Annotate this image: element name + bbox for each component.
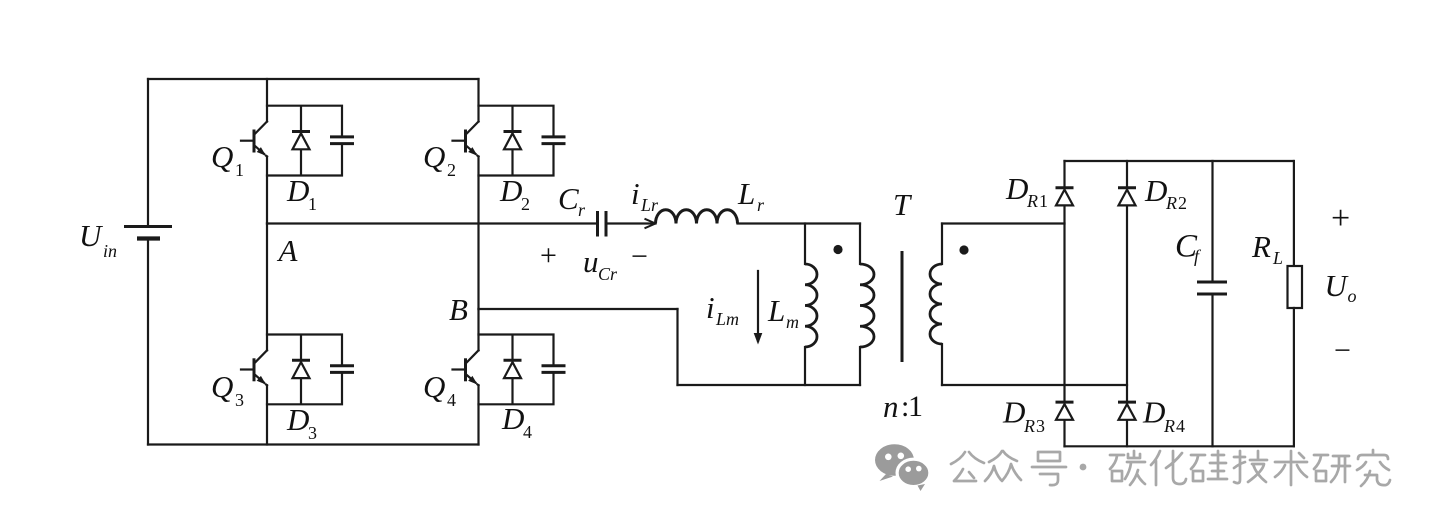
watermark char hua <box>1151 451 1186 485</box>
watermark char hao <box>1032 452 1066 485</box>
label D2 <box>499 173 530 214</box>
svg-text:R: R <box>1026 191 1038 211</box>
label Q3 <box>211 369 244 410</box>
svg-text:+: + <box>1331 200 1350 237</box>
wire rectifier top rail <box>1065 160 1294 162</box>
watermark char shu <box>1275 451 1307 485</box>
wire Q3 leg upper (node A down) <box>266 224 268 351</box>
svg-text:D: D <box>1142 395 1165 430</box>
svg-text:R: R <box>1165 193 1177 213</box>
wechat icon small bubble <box>897 459 930 491</box>
label DR4 <box>1142 395 1185 437</box>
wire primary-side bottom <box>678 384 861 386</box>
svg-text:in: in <box>103 241 117 261</box>
label Lr <box>737 176 765 215</box>
diode DR3 <box>1056 402 1074 420</box>
diode DR2 <box>1118 188 1136 206</box>
current arrow iLr <box>645 219 656 229</box>
label Q4 <box>423 369 456 410</box>
capacitor Cr <box>598 211 607 237</box>
snubber capacitor of Q2 <box>542 137 566 144</box>
svg-text:r: r <box>757 195 765 215</box>
wechat icon big bubble <box>875 444 914 481</box>
load resistor RL <box>1288 161 1303 446</box>
svg-text:D: D <box>1005 171 1028 206</box>
svg-text:Q: Q <box>211 139 233 174</box>
svg-text:L: L <box>737 176 755 211</box>
current arrow iLm <box>754 271 763 345</box>
svg-text:T: T <box>893 187 913 222</box>
svg-text:R: R <box>1023 416 1035 436</box>
svg-text:L: L <box>767 293 785 328</box>
snubber capacitor of Q1 <box>330 137 354 144</box>
label iLr <box>631 176 659 215</box>
watermark char jiu <box>1357 450 1390 486</box>
transformer T primary winding <box>860 224 874 386</box>
wire bottom rail <box>148 443 479 445</box>
wire DR1/DR3 branch <box>1063 161 1065 446</box>
label iLm <box>706 290 739 329</box>
svg-text:3: 3 <box>235 390 244 410</box>
svg-text:i: i <box>631 176 640 211</box>
svg-text:1: 1 <box>908 390 923 423</box>
label Q2 <box>423 139 456 180</box>
svg-text:4: 4 <box>523 422 532 442</box>
svg-text:A: A <box>277 233 299 268</box>
svg-text:U: U <box>1325 268 1350 303</box>
wire secondary top to rectifier <box>942 222 1065 224</box>
diode D3 <box>292 360 310 378</box>
svg-text:L: L <box>1272 248 1283 268</box>
label Uo <box>1325 268 1357 306</box>
watermark char gui <box>1191 451 1227 481</box>
svg-text:r: r <box>578 200 586 220</box>
wire Q2 leg upper <box>477 79 479 122</box>
inductor Lr <box>656 210 738 224</box>
label uCr <box>583 244 618 284</box>
label D3 <box>286 402 317 443</box>
svg-text:i: i <box>706 290 715 325</box>
label DR3 <box>1002 395 1045 437</box>
transformer core <box>901 251 904 362</box>
svg-text:o: o <box>1348 286 1357 306</box>
label U_in <box>79 218 117 261</box>
inductor Lm (magnetizing) <box>805 224 817 386</box>
transistor Q4 <box>453 350 479 385</box>
wire Q1 emitter to node A <box>266 157 268 224</box>
label Lm <box>767 293 799 332</box>
svg-text:1: 1 <box>235 160 244 180</box>
label RL <box>1251 229 1283 268</box>
wire Q4 snubber bracket <box>479 335 554 405</box>
transformer secondary winding <box>930 224 942 386</box>
watermark char gong <box>951 452 984 481</box>
svg-text:3: 3 <box>1036 416 1045 436</box>
svg-text:D: D <box>1144 173 1167 208</box>
svg-text:U: U <box>79 218 104 253</box>
snubber capacitor of Q4 <box>542 366 566 373</box>
svg-text:2: 2 <box>1178 193 1187 213</box>
diode DR4 <box>1118 402 1136 420</box>
wire Q2 emitter to node B <box>477 157 479 310</box>
wire secondary bottom to rectifier <box>942 384 1127 386</box>
label Cr <box>558 181 586 220</box>
transistor Q1 <box>241 122 267 157</box>
watermark char tan <box>1110 451 1145 485</box>
svg-text:D: D <box>286 402 309 437</box>
svg-text:R: R <box>1251 229 1271 264</box>
svg-text:2: 2 <box>447 160 456 180</box>
svg-text:Lr: Lr <box>640 195 659 215</box>
transistor Q3 <box>241 350 267 385</box>
label DR2 <box>1144 173 1187 213</box>
snubber capacitor of Q3 <box>330 366 354 373</box>
wire Q3 snubber bracket <box>267 335 342 405</box>
svg-text:−: − <box>631 240 648 273</box>
svg-text:3: 3 <box>308 423 317 443</box>
diode D4 <box>504 360 522 378</box>
wire rectifier bottom rail <box>1065 445 1294 447</box>
svg-text:Q: Q <box>211 369 233 404</box>
wire B corner down <box>676 309 678 385</box>
label D1 <box>286 173 317 214</box>
wire node A to Cr <box>267 222 598 224</box>
svg-text:+: + <box>540 239 557 272</box>
svg-text:B: B <box>449 292 468 327</box>
svg-text:4: 4 <box>447 390 456 410</box>
svg-text:Cr: Cr <box>598 264 618 284</box>
wire DR2/DR4 branch <box>1126 161 1128 446</box>
diode D2 <box>504 132 522 150</box>
primary polarity dot <box>833 245 842 254</box>
svg-text:u: u <box>583 244 599 279</box>
wire top rail <box>148 78 479 80</box>
svg-text:D: D <box>499 173 522 208</box>
svg-text:D: D <box>286 173 309 208</box>
wire node B run <box>479 308 678 310</box>
svg-text:Q: Q <box>423 369 445 404</box>
label D4 <box>501 401 532 442</box>
svg-text:4: 4 <box>1176 416 1185 436</box>
svg-text:D: D <box>501 401 524 436</box>
diode DR1 <box>1056 188 1074 206</box>
svg-text:−: − <box>1334 334 1351 367</box>
svg-text:1: 1 <box>1039 191 1048 211</box>
wire Lr to transformer top <box>738 222 861 224</box>
label n:1 <box>883 389 923 424</box>
watermark char zhong <box>985 451 1021 481</box>
wire Q4 leg upper (node B down) <box>477 309 479 350</box>
wire Q1 leg upper <box>266 79 268 122</box>
label Q1 <box>211 139 244 180</box>
diode D1 <box>292 132 310 150</box>
svg-text:R: R <box>1163 416 1175 436</box>
wire Q3 emitter to bottom rail <box>266 385 268 444</box>
watermark middle dot <box>1080 464 1087 471</box>
watermark char yan <box>1314 455 1350 482</box>
svg-text:Q: Q <box>423 139 445 174</box>
battery U_in <box>124 79 172 445</box>
svg-text:n: n <box>883 389 899 424</box>
svg-text:Lm: Lm <box>715 309 739 329</box>
svg-text:D: D <box>1002 395 1025 430</box>
filter capacitor Cf branch <box>1197 161 1227 446</box>
watermark char ji <box>1234 451 1267 483</box>
transistor Q2 <box>453 122 479 157</box>
label DR1 <box>1005 171 1048 211</box>
wire Cr to Lr <box>606 222 656 224</box>
svg-text:C: C <box>558 181 579 216</box>
svg-text:m: m <box>786 312 799 332</box>
wire Q4 emitter to bottom rail <box>477 385 479 444</box>
svg-text:f: f <box>1194 246 1202 266</box>
svg-text:1: 1 <box>308 194 317 214</box>
wire Q1 snubber bracket <box>267 106 342 176</box>
wire Q2 snubber bracket <box>479 106 554 176</box>
secondary polarity dot <box>959 245 968 254</box>
svg-text:2: 2 <box>521 194 530 214</box>
label Cf <box>1175 229 1202 267</box>
